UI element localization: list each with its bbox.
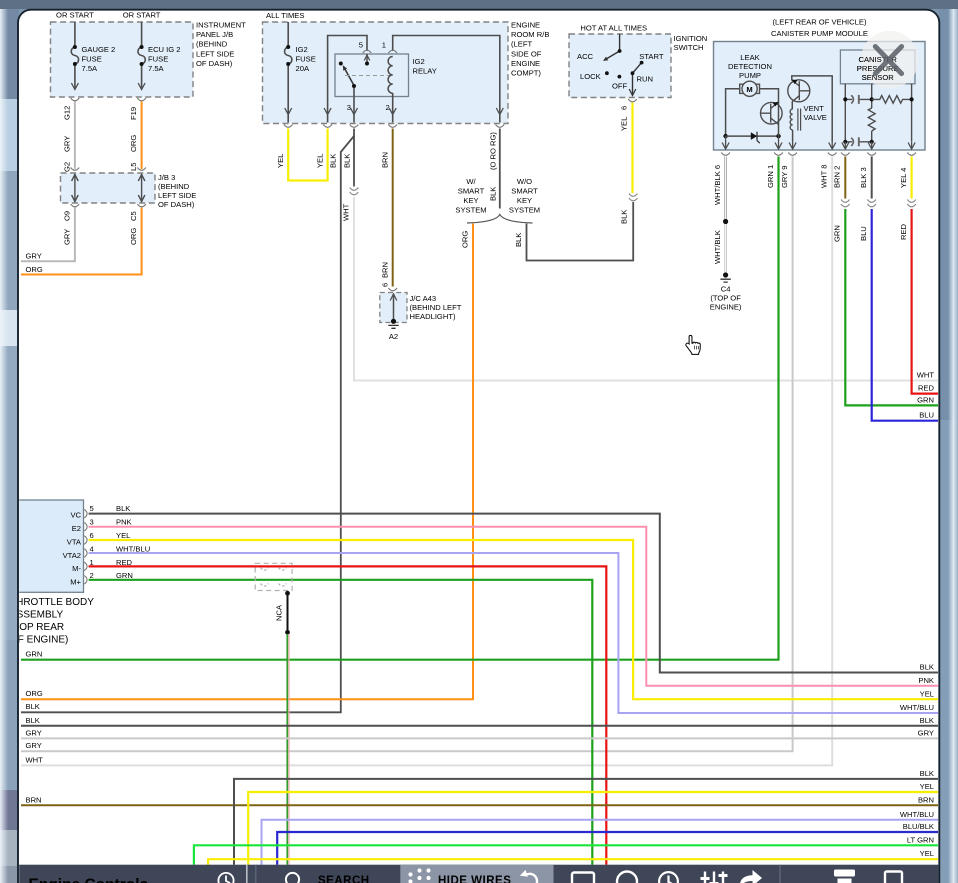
- svg-text:3: 3: [90, 518, 94, 527]
- connector (inline) BRN to GRN: [841, 200, 850, 207]
- wire ORG (C5 down and left): [21, 208, 142, 275]
- svg-text:WHT/BLK: WHT/BLK: [713, 230, 722, 264]
- svg-text:GRN: GRN: [833, 225, 842, 242]
- svg-text:WHT: WHT: [917, 371, 935, 380]
- svg-text:BLK: BLK: [620, 210, 629, 224]
- wire BLK (corner x234): [234, 779, 938, 865]
- wire RED (to right edge): [912, 209, 938, 394]
- svg-text:WHT: WHT: [342, 203, 351, 221]
- svg-text:6: 6: [620, 106, 629, 110]
- svg-text:ORG: ORG: [26, 265, 43, 274]
- svg-text:BLU: BLU: [859, 226, 868, 241]
- share icon: [740, 870, 763, 883]
- svg-text:GRY: GRY: [918, 728, 934, 737]
- wire J/C A43 internal: [393, 294, 395, 322]
- bookmark icon: [885, 872, 902, 883]
- wire sensor right leg: [911, 84, 913, 142]
- svg-text:BLK: BLK: [920, 716, 934, 725]
- wire Q2 collector to pin 8: [792, 76, 832, 142]
- wire GRY (left-right full run): [21, 737, 938, 739]
- svg-text:GRY: GRY: [26, 728, 42, 737]
- hide wires icon: [408, 868, 430, 883]
- connector (inline) WHT: [350, 188, 359, 195]
- wire BLK (to WHT connector): [353, 136, 355, 187]
- svg-text:W/O: W/O: [517, 177, 532, 186]
- svg-text:IG2: IG2: [296, 45, 308, 54]
- svg-text:FUSE: FUSE: [82, 55, 102, 64]
- sensor: CANISTER PRESSURE SENSOR box: [840, 50, 915, 84]
- wire Q2 emitter to coil: [791, 102, 793, 110]
- wire YEL (corner x208): [208, 859, 938, 865]
- wire BRN (left-right full run): [21, 804, 938, 806]
- relay coil: [388, 57, 393, 94]
- svg-text:LEFT SIDE: LEFT SIDE: [196, 49, 234, 58]
- wire pump bottom leg: [726, 135, 779, 137]
- svg-text:GRN 1: GRN 1: [766, 165, 775, 188]
- svg-text:GRY: GRY: [26, 252, 42, 261]
- svg-text:ENGINE): ENGINE): [710, 303, 742, 312]
- svg-text:C5: C5: [129, 211, 138, 221]
- switch S1: IGNITION SWITCH box: [569, 24, 707, 98]
- svg-text:GRY: GRY: [26, 741, 42, 750]
- svg-text:GRY: GRY: [63, 136, 72, 152]
- ground C4 (TOP OF ENGINE): [723, 272, 728, 277]
- svg-text:INSTRUMENT: INSTRUMENT: [196, 21, 246, 30]
- svg-text:(O RO RG): (O RO RG): [488, 132, 497, 170]
- svg-text:BRN: BRN: [26, 795, 42, 804]
- svg-text:FUSE: FUSE: [296, 55, 316, 64]
- connector pin G2: [71, 168, 80, 171]
- svg-text:HEADLIGHT): HEADLIGHT): [410, 312, 456, 321]
- svg-text:VC: VC: [70, 511, 81, 520]
- node OFF: [618, 75, 622, 79]
- wire BLK (VC): [89, 514, 938, 673]
- svg-text:BLK: BLK: [342, 154, 351, 168]
- svg-text:J/C A43: J/C A43: [410, 294, 437, 303]
- svg-text:1: 1: [382, 41, 386, 50]
- svg-text:YEL: YEL: [920, 689, 934, 698]
- ground A2: [391, 319, 396, 324]
- inductor L1 (vent valve coil): [790, 109, 792, 130]
- fuse ECU IG 2 FUSE 7.5A: [138, 22, 145, 90]
- svg-text:BLK: BLK: [26, 702, 40, 711]
- wire ORG (F19 to L5): [141, 102, 143, 170]
- wire GRN (M+): [89, 580, 593, 865]
- svg-text:HOT AT ALL TIMES: HOT AT ALL TIMES: [580, 24, 647, 33]
- motor M (leak detection pump): [740, 81, 760, 96]
- connector (hidden/ghost) box on M wires: [255, 563, 292, 590]
- wire J/B3 right internal: [138, 174, 145, 202]
- svg-text:SEARCH: SEARCH: [318, 875, 370, 883]
- svg-text:YEL: YEL: [276, 154, 285, 168]
- module pin exit arrows: [722, 136, 915, 149]
- svg-text:G12: G12: [63, 106, 72, 120]
- svg-text:W/: W/: [466, 177, 476, 186]
- connector pin arcs (throttle body): [84, 509, 87, 584]
- fuse GAUGE 2 FUSE 7.5A: [71, 22, 78, 90]
- svg-text:COMPT): COMPT): [511, 69, 541, 78]
- svg-text:PNK: PNK: [918, 676, 934, 685]
- wire GRN (to right edge): [845, 209, 938, 405]
- wire YEL U-loop: [288, 129, 327, 181]
- svg-text:PANEL J/B: PANEL J/B: [196, 30, 233, 39]
- node RUN: [631, 71, 635, 75]
- svg-text:ALL TIMES: ALL TIMES: [266, 11, 304, 20]
- wire RED (M-): [89, 566, 607, 864]
- svg-text:BRN 2: BRN 2: [833, 166, 842, 188]
- svg-text:BLK 3: BLK 3: [859, 167, 868, 188]
- wire YEL (corner x248): [248, 792, 938, 865]
- connector pin 6 (ignition): [628, 99, 637, 102]
- svg-text:DETECTION: DETECTION: [728, 62, 772, 71]
- svg-text:VALVE: VALVE: [804, 113, 827, 122]
- svg-text:Engine Controls: Engine Controls: [29, 877, 149, 883]
- junction block: ENGINE ROOM R/B (ALL TIMES) box: [263, 11, 550, 124]
- svg-text:J/B 3: J/B 3: [158, 173, 175, 182]
- wire YEL (ignition to inline connector): [631, 103, 633, 194]
- resistor R1: [872, 96, 912, 104]
- svg-text:WHT 8: WHT 8: [820, 165, 829, 189]
- wire PNK (E2): [89, 527, 938, 686]
- relay U: IG2 RELAY box: [335, 54, 409, 97]
- svg-text:C4: C4: [721, 285, 731, 294]
- svg-text:7.5A: 7.5A: [148, 64, 165, 73]
- wire GRY pin 9 (down and left): [21, 157, 793, 752]
- connector: THROTTLE BODY ASSEMBLY box: [16, 500, 84, 592]
- wire GRN pin 1 (down and left): [21, 157, 779, 660]
- svg-text:M-: M-: [72, 564, 81, 573]
- svg-text:A2: A2: [389, 332, 398, 341]
- TOOLBAR: [19, 865, 939, 883]
- svg-text:WHT: WHT: [26, 755, 44, 764]
- svg-text:GRY: GRY: [63, 229, 72, 245]
- fuse IG2 FUSE 20A: [285, 22, 292, 123]
- relay switch contact: [339, 62, 343, 66]
- node pump bottom-right: [776, 134, 780, 138]
- svg-text:GRY 9: GRY 9: [780, 165, 789, 188]
- svg-text:WHT/BLU: WHT/BLU: [900, 703, 934, 712]
- wire LT GRN (corner x194): [194, 845, 938, 864]
- wire (hidden, faint) stubs over toolbar: [246, 865, 248, 883]
- svg-text:YEL: YEL: [920, 782, 934, 791]
- module: CANISTER PUMP MODULE box: [714, 18, 926, 151]
- brace smart key split: [467, 215, 533, 224]
- svg-text:RUN: RUN: [637, 75, 653, 84]
- svg-text:BRN: BRN: [381, 262, 390, 278]
- wire sensor mid leg: [871, 84, 873, 108]
- svg-text:(LEFT REAR OF VEHICLE): (LEFT REAR OF VEHICLE): [773, 18, 867, 27]
- svg-text:YEL 4: YEL 4: [899, 168, 908, 188]
- svg-text:BLU: BLU: [919, 411, 934, 420]
- svg-text:KEY: KEY: [463, 196, 478, 205]
- svg-text:BLK: BLK: [488, 187, 497, 201]
- svg-text:FUSE: FUSE: [148, 55, 168, 64]
- svg-text:OF DASH): OF DASH): [196, 59, 233, 68]
- svg-text:ACC: ACC: [577, 52, 594, 61]
- search icon: [286, 873, 302, 883]
- svg-text:7.5A: 7.5A: [82, 64, 99, 73]
- svg-text:(TOP OF: (TOP OF: [710, 294, 741, 303]
- wire WHT (down then right to edge): [354, 197, 938, 381]
- wire (O RO RG) / BLK down to smart key split: [499, 129, 501, 209]
- history icon: [218, 873, 233, 883]
- svg-text:BLK: BLK: [329, 154, 338, 168]
- svg-text:RELAY: RELAY: [413, 67, 437, 76]
- connector pin 6 (J/C A43): [388, 288, 397, 291]
- svg-text:ENGINE: ENGINE: [511, 21, 540, 30]
- wire WHT/BLU (corner x261.5): [262, 820, 939, 865]
- svg-text:PUMP: PUMP: [739, 71, 761, 80]
- wire YEL pin 4: [910, 157, 912, 199]
- mouse cursor: [686, 335, 700, 354]
- wire BLK (w/o smart key loop): [527, 202, 634, 261]
- svg-text:VTA2: VTA2: [63, 551, 81, 560]
- capacitor C1: [845, 98, 871, 100]
- svg-text:SWITCH: SWITCH: [674, 43, 704, 52]
- svg-text:GRN: GRN: [917, 396, 934, 405]
- OVERLAYS: [686, 31, 919, 354]
- wire BRN (relay pin2 to J/C A43): [392, 129, 394, 287]
- svg-text:SMART: SMART: [511, 187, 538, 196]
- resistor R2: [868, 108, 875, 131]
- svg-text:OFF: OFF: [612, 82, 628, 91]
- svg-text:ENGINE: ENGINE: [511, 59, 540, 68]
- svg-text:VENT: VENT: [804, 104, 825, 113]
- svg-text:PNK: PNK: [116, 518, 132, 527]
- svg-text:OR START: OR START: [56, 11, 94, 20]
- svg-text:BLU/BLK: BLU/BLK: [903, 822, 934, 831]
- junction block: INSTRUMENT PANEL J/B box: [51, 21, 247, 98]
- svg-text:OR START: OR START: [123, 11, 161, 20]
- rect icon: [572, 873, 594, 883]
- svg-text:BLK: BLK: [116, 504, 130, 513]
- connector pins below R/B box: [284, 125, 293, 128]
- svg-text:E2: E2: [72, 524, 81, 533]
- connector pins below module: [721, 153, 916, 156]
- wire NCA stub: [287, 593, 289, 632]
- transistor Q1 (pump driver): [761, 102, 783, 124]
- svg-text:BRN: BRN: [918, 795, 934, 804]
- close button: [861, 31, 919, 89]
- wire GRY (G12 to G2): [74, 102, 76, 170]
- wire coil to pin 9: [792, 130, 794, 142]
- wire relay pin5 top run: [328, 36, 367, 115]
- svg-text:ECU IG 2: ECU IG 2: [148, 45, 181, 54]
- wire BLU (to right edge): [872, 209, 938, 421]
- connector pin O9: [71, 204, 80, 207]
- svg-text:VTA: VTA: [67, 538, 82, 547]
- svg-text:SYSTEM: SYSTEM: [509, 206, 540, 215]
- sliders icon: [701, 872, 728, 883]
- svg-text:2: 2: [385, 103, 389, 112]
- wire BLK (left-right full run): [21, 725, 938, 727]
- svg-text:3: 3: [347, 103, 351, 112]
- svg-text:G2: G2: [63, 162, 72, 172]
- svg-text:GRN: GRN: [26, 650, 43, 659]
- svg-text:KEY: KEY: [517, 196, 532, 205]
- svg-text:6: 6: [90, 531, 94, 540]
- capacitor C2: [845, 141, 871, 143]
- throttle body label: [10, 597, 94, 646]
- ignition switch internals: [603, 34, 642, 96]
- svg-text:ROOM R/B: ROOM R/B: [511, 30, 549, 39]
- wire J/B3 left internal: [72, 174, 79, 202]
- svg-text:F19: F19: [129, 107, 138, 120]
- wire YEL (VTA): [89, 540, 938, 699]
- svg-text:SMART: SMART: [458, 187, 485, 196]
- wire ORG (w/ smart key) down then left: [21, 224, 473, 700]
- wire GRY (O9 down and left): [21, 208, 75, 262]
- svg-text:SYSTEM: SYSTEM: [455, 206, 486, 215]
- svg-text:(BEHIND: (BEHIND: [196, 40, 228, 49]
- svg-text:M+: M+: [70, 578, 81, 587]
- svg-text:BLK: BLK: [920, 663, 934, 672]
- connector pin G12: [71, 98, 80, 101]
- wire pump right leg: [760, 89, 779, 136]
- svg-text:YEL: YEL: [620, 117, 629, 131]
- svg-text:BLK: BLK: [514, 233, 523, 247]
- svg-text:IGNITION: IGNITION: [674, 34, 708, 43]
- svg-text:BRN: BRN: [381, 152, 390, 168]
- right backdrop: [939, 9, 958, 883]
- svg-text:M: M: [746, 85, 752, 94]
- svg-text:ORG: ORG: [461, 231, 470, 248]
- svg-text:LT GRN: LT GRN: [907, 835, 934, 844]
- svg-text:BLK: BLK: [26, 716, 40, 725]
- svg-text:(BEHIND LEFT: (BEHIND LEFT: [410, 303, 462, 312]
- svg-text:BLK: BLK: [920, 769, 934, 778]
- connector (inline) YEL to BLK: [629, 194, 638, 201]
- node LOCK: [605, 71, 609, 75]
- svg-text:YEL: YEL: [316, 154, 325, 168]
- svg-text:NCA: NCA: [275, 604, 284, 621]
- svg-text:5: 5: [90, 504, 94, 513]
- junction block J/B 3 box: [61, 173, 197, 209]
- svg-text:LEAK: LEAK: [740, 53, 759, 62]
- transistor Q2 (vent valve driver): [788, 80, 810, 102]
- wire pump left leg: [726, 89, 740, 136]
- connector pin C5: [137, 204, 146, 207]
- wire BLU/BLK (corner x277): [277, 832, 938, 865]
- connector (inline) YEL to RED: [907, 200, 916, 207]
- wire relay pin1 top run: [393, 36, 500, 115]
- junction connector J/C A43 box: [380, 293, 462, 323]
- svg-text:IG2: IG2: [413, 57, 425, 66]
- svg-text:SIDE OF: SIDE OF: [511, 49, 542, 58]
- printer icon: [834, 870, 855, 883]
- svg-text:ORG: ORG: [129, 135, 138, 152]
- svg-text:YEL: YEL: [116, 531, 130, 540]
- svg-text:HIDE WIRES: HIDE WIRES: [438, 875, 511, 883]
- wire WHT/BLU (VTA2): [89, 553, 938, 713]
- svg-text:THROTTLE BODY: THROTTLE BODY: [10, 597, 94, 608]
- svg-text:(LEFT: (LEFT: [511, 40, 532, 49]
- left backdrop segments: [0, 9, 19, 99]
- circle icon: [617, 872, 637, 883]
- svg-text:WHT/BLK 6: WHT/BLK 6: [713, 165, 722, 205]
- wire sensor left leg: [844, 84, 846, 142]
- svg-text:RED: RED: [899, 223, 908, 240]
- relay mechanical link (dashed): [345, 75, 390, 77]
- node START: [640, 61, 644, 65]
- svg-text:RED: RED: [918, 384, 935, 393]
- diode D1: [751, 132, 757, 140]
- connector (inline) BLK to BLU: [867, 200, 876, 207]
- svg-text:CANISTER PUMP MODULE: CANISTER PUMP MODULE: [771, 29, 868, 38]
- svg-text:YEL: YEL: [920, 849, 934, 858]
- wire WHT/BLK to C4: [724, 224, 726, 273]
- svg-text:LEFT SIDE: LEFT SIDE: [158, 191, 196, 200]
- node pump bottom-left: [723, 134, 727, 138]
- wire GRN (NCA continuation down): [288, 634, 290, 865]
- svg-text:L5: L5: [129, 163, 138, 171]
- undo icon: [520, 870, 537, 883]
- connector pin L5: [137, 168, 146, 171]
- svg-text:START: START: [639, 52, 664, 61]
- connector pin F19: [137, 98, 146, 101]
- node WHT/BLK junction: [723, 219, 728, 224]
- svg-text:O9: O9: [63, 211, 72, 221]
- svg-text:5: 5: [359, 41, 363, 50]
- svg-text:ORG: ORG: [26, 689, 43, 698]
- svg-text:OF DASH): OF DASH): [158, 200, 195, 209]
- svg-text:GAUGE 2: GAUGE 2: [82, 45, 116, 54]
- svg-text:ORG: ORG: [129, 228, 138, 245]
- svg-text:6: 6: [381, 283, 390, 287]
- wire BRN pin 2: [844, 157, 846, 199]
- clock icon: [659, 872, 678, 883]
- svg-text:(BEHIND: (BEHIND: [158, 182, 190, 191]
- wire WHT pin 8 (down and left): [21, 157, 832, 766]
- wire BLK (relay pin3 split left): [21, 129, 354, 713]
- svg-text:20A: 20A: [296, 64, 310, 73]
- wire WHT/BLK pin 6: [724, 157, 727, 221]
- wire BLK pin 3: [871, 157, 873, 199]
- svg-text:WHT/BLU: WHT/BLU: [900, 810, 934, 819]
- svg-text:LOCK: LOCK: [580, 72, 601, 81]
